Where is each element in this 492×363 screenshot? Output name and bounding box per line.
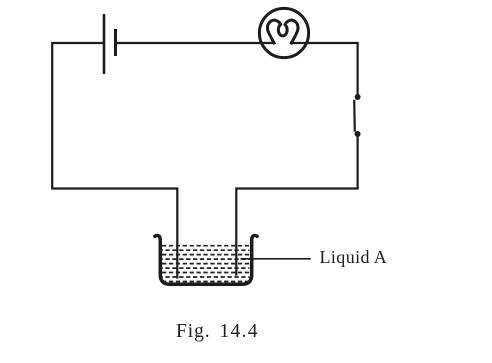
svg-text:Liquid A: Liquid A — [320, 247, 388, 267]
svg-text:14.4: 14.4 — [220, 321, 259, 342]
svg-text:Fig.: Fig. — [176, 321, 211, 342]
